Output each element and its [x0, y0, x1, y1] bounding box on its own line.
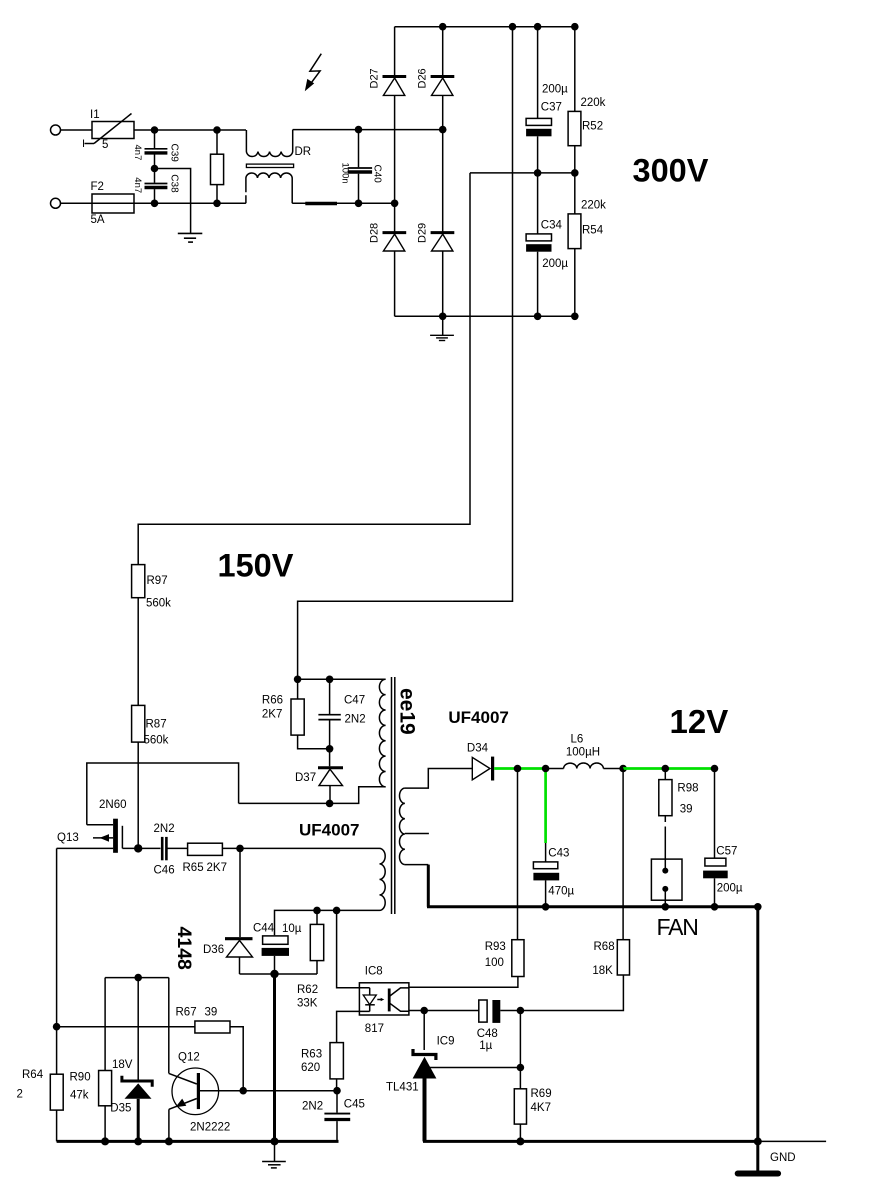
svg-text:C45: C45 [344, 1099, 365, 1111]
svg-text:R52: R52 [582, 121, 603, 133]
terminal N (bottom input) [51, 198, 61, 208]
capacitor C37 [534, 23, 542, 31]
R68 column from 12V node [622, 769, 624, 940]
svg-text:220k: 220k [581, 97, 606, 109]
inductor L6 [564, 763, 604, 768]
svg-text:C47: C47 [344, 695, 365, 707]
optocoupler IC8 [359, 983, 409, 1015]
thick ground return rail [423, 1140, 758, 1143]
green 12V wire [623, 767, 714, 770]
svg-text:R64: R64 [22, 1069, 44, 1081]
resistor R52 [571, 23, 579, 31]
resistor R87 [132, 705, 145, 742]
wire R87 to drain node [137, 742, 139, 848]
capacitor C38 [154, 169, 156, 183]
svg-text:TL431: TL431 [386, 1082, 419, 1094]
resistor R69 [519, 1011, 521, 1089]
wire choke to bridge (top AC) [293, 129, 443, 131]
transformer primary winding [379, 679, 385, 787]
mid rail 150V [470, 172, 575, 174]
resistor R97 [132, 565, 145, 598]
resistor R66 [297, 679, 299, 699]
opto output wire [409, 1010, 479, 1012]
TL431 anode thick wire [423, 1079, 427, 1142]
svg-text:DR: DR [295, 146, 312, 158]
resistor R65 [188, 843, 223, 855]
fuse F2 [92, 202, 246, 204]
IC8 arrow [377, 999, 382, 1001]
IC8 LED [369, 988, 371, 995]
svg-text:R90: R90 [70, 1072, 91, 1084]
TL431 ref wire [430, 1067, 521, 1069]
ground (center bottom) [262, 1161, 286, 1163]
svg-text:33K: 33K [297, 998, 318, 1010]
svg-text:4148: 4148 [173, 927, 195, 971]
svg-text:C39: C39 [169, 144, 180, 163]
svg-text:150V: 150V [218, 548, 294, 584]
svg-text:D28: D28 [369, 223, 381, 243]
resistor R67 [195, 1021, 230, 1033]
svg-text:R69: R69 [531, 1088, 552, 1100]
terminal L (top input) [51, 125, 61, 135]
svg-text:560k: 560k [146, 598, 171, 610]
capacitor C44 [263, 936, 288, 944]
GND symbol [756, 1141, 759, 1170]
resistor R90 [104, 978, 106, 1071]
svg-text:IC9: IC9 [437, 1036, 455, 1048]
capacitor C39 [154, 130, 156, 148]
diode D36 [239, 848, 241, 937]
GND stub wire [758, 1140, 826, 1142]
svg-text:R54: R54 [582, 225, 604, 237]
svg-text:R68: R68 [594, 941, 615, 953]
diode D27 [383, 75, 407, 78]
bleeder resistor (vertical, unlabeled) [216, 130, 218, 154]
svg-text:GND: GND [770, 1152, 796, 1164]
svg-text:560k: 560k [144, 735, 169, 747]
diode D34 [472, 757, 490, 780]
R93 column from 12V raw node [517, 769, 519, 940]
svg-text:D27: D27 [369, 68, 381, 88]
svg-text:100: 100 [485, 957, 504, 969]
svg-text:2N2: 2N2 [154, 823, 175, 835]
lightning bolt symbol [309, 54, 322, 87]
svg-text:D29: D29 [417, 223, 429, 243]
svg-text:C40: C40 [372, 165, 383, 184]
thick wire to ground [273, 974, 276, 1141]
wire R64 node to R67 [57, 1026, 195, 1028]
diode D28 [394, 203, 396, 232]
wire L6 to node [603, 768, 623, 770]
svg-text:Q13: Q13 [57, 832, 79, 844]
secondary top wire [405, 769, 472, 789]
primary top node wire [298, 678, 386, 680]
svg-text:L6: L6 [571, 734, 584, 746]
resistor R62 [316, 910, 318, 924]
svg-text:C34: C34 [541, 220, 563, 232]
svg-text:2K7: 2K7 [262, 709, 282, 721]
capacitor C43 [533, 862, 557, 869]
wire R97 to R87 [137, 598, 139, 706]
150V feed wire [138, 173, 470, 565]
svg-text:5A: 5A [91, 214, 105, 226]
wire choke to bridge (bottom AC) [292, 202, 394, 204]
wire terminal to F2 [61, 202, 92, 204]
capacitor C40 [355, 126, 363, 134]
secondary winding [399, 788, 404, 864]
svg-text:C48: C48 [477, 1028, 498, 1040]
svg-text:200µ: 200µ [542, 84, 568, 96]
right bridge column [439, 23, 447, 31]
svg-text:R63: R63 [301, 1049, 322, 1061]
300V feed wire [509, 23, 517, 31]
capacitor C34 [537, 173, 539, 234]
svg-text:220k: 220k [581, 200, 606, 212]
junction: line node at C39 [151, 126, 159, 134]
svg-text:UF4007: UF4007 [448, 708, 508, 727]
Q13 source column to R64 [56, 848, 58, 1074]
IC8 pin feed from aux [337, 910, 370, 987]
junction: line node at bleeder [213, 126, 221, 134]
left bridge column [394, 27, 396, 77]
svg-text:C43: C43 [548, 848, 569, 860]
junction: neutral node at C38 [151, 200, 159, 208]
svg-text:39: 39 [680, 804, 693, 816]
svg-text:ee19: ee19 [396, 688, 419, 735]
svg-text:IC8: IC8 [365, 966, 383, 978]
svg-text:39: 39 [205, 1007, 218, 1019]
bottom node wire (D36/C44/R62) [240, 973, 318, 975]
capacitor C46 [138, 847, 160, 849]
capacitor C48 [479, 1000, 487, 1022]
IC9 cathode column [423, 1011, 425, 1051]
svg-text:C38: C38 [169, 174, 180, 193]
svg-text:100µH: 100µH [566, 747, 600, 759]
diode D26 [431, 75, 455, 78]
svg-text:18V: 18V [112, 1059, 133, 1071]
zener D35 [137, 978, 139, 1081]
svg-text:620: 620 [301, 1062, 320, 1074]
svg-text:5: 5 [102, 139, 108, 151]
choke core [246, 164, 293, 167]
bottom rail (left) [57, 1140, 339, 1143]
resistor R63 [330, 1043, 343, 1079]
capacitor C47 [329, 679, 331, 714]
green wire D34 to L6 node [494, 767, 545, 770]
svg-text:4n7: 4n7 [132, 177, 143, 193]
svg-text:817: 817 [365, 1023, 384, 1035]
svg-text:2N60: 2N60 [99, 799, 127, 811]
svg-text:R67: R67 [176, 1007, 197, 1019]
svg-text:12V: 12V [670, 703, 729, 740]
wire terminal to I1 [61, 129, 92, 131]
green wire C43 drop [544, 769, 547, 844]
svg-text:1µ: 1µ [479, 1040, 492, 1052]
ground (input filter) [178, 232, 203, 234]
svg-text:Q12: Q12 [178, 1052, 200, 1064]
transistor Q12 [172, 1068, 219, 1115]
svg-text:F2: F2 [91, 181, 104, 193]
primary bottom wire [326, 800, 334, 808]
IC8 phototransistor [388, 989, 391, 1012]
svg-text:300V: 300V [633, 153, 709, 189]
wire cap midpoint to ground [155, 169, 191, 234]
svg-text:R97: R97 [147, 575, 168, 587]
thermistor I1 [92, 122, 134, 139]
svg-text:C37: C37 [541, 102, 562, 114]
Q12 base wire [200, 1090, 337, 1092]
junction: C39/C38 midpoint node [151, 165, 159, 173]
svg-text:D26: D26 [417, 68, 429, 88]
transformer core [391, 677, 393, 914]
svg-text:C46: C46 [154, 865, 175, 877]
diode D37 [329, 749, 331, 767]
svg-text:FAN: FAN [657, 914, 698, 940]
svg-text:D36: D36 [203, 944, 224, 956]
bottom rail of bridge [395, 315, 575, 317]
svg-text:2N2: 2N2 [302, 1101, 323, 1113]
FAN connector [651, 859, 682, 900]
gate feedback wire [87, 763, 239, 825]
mosfet Q13 [113, 819, 118, 853]
svg-text:R98: R98 [677, 783, 698, 795]
svg-text:200µ: 200µ [542, 258, 568, 270]
diode D29 [431, 231, 455, 234]
svg-text:C57: C57 [716, 846, 737, 858]
svg-text:2N2: 2N2 [345, 714, 366, 726]
ground (bridge) [442, 316, 444, 335]
svg-text:I1: I1 [90, 109, 100, 121]
svg-text:10µ: 10µ [282, 923, 302, 935]
svg-text:2K7: 2K7 [207, 862, 227, 874]
svg-text:2N2222: 2N2222 [190, 1122, 230, 1134]
TL431 IC9 [413, 1049, 436, 1060]
wire I1 to choke [134, 129, 246, 131]
branch wire (R90/D35/Q12 top) [105, 977, 169, 979]
svg-text:R93: R93 [485, 941, 506, 953]
svg-text:18K: 18K [592, 965, 613, 977]
secondary bottom wire [405, 864, 428, 866]
svg-text:D34: D34 [467, 743, 489, 755]
svg-text:470µ: 470µ [548, 886, 574, 898]
svg-text:C44: C44 [253, 923, 275, 935]
svg-text:R62: R62 [297, 984, 318, 996]
svg-text:R66: R66 [262, 695, 283, 707]
svg-text:100n: 100n [340, 163, 351, 184]
resistor R64 [50, 1074, 63, 1110]
svg-text:D35: D35 [110, 1103, 131, 1115]
top rail 300V [395, 26, 575, 28]
winding tap stub [405, 833, 429, 835]
svg-text:R65: R65 [183, 862, 204, 874]
junction: R65/D36 gate-drive node [236, 845, 244, 853]
choke DR bottom winding [246, 173, 292, 203]
svg-text:4K7: 4K7 [531, 1102, 551, 1114]
svg-text:200µ: 200µ [717, 883, 743, 895]
resistor R68 [617, 940, 629, 975]
resistor R98 [664, 769, 666, 780]
svg-text:I: I [82, 138, 85, 150]
svg-text:R87: R87 [146, 719, 167, 731]
capacitor C57 [714, 769, 716, 859]
IC8 LED cathode pin to R63 [337, 1011, 370, 1042]
svg-text:47k: 47k [70, 1090, 89, 1102]
resistor R93 [512, 940, 524, 977]
choke DR top winding [246, 130, 292, 157]
svg-text:D37: D37 [295, 772, 316, 784]
svg-text:4n7: 4n7 [132, 145, 143, 161]
output ground rail [427, 905, 758, 908]
svg-text:2: 2 [17, 1089, 23, 1101]
resistor R54 [574, 173, 576, 214]
aux winding [380, 848, 386, 910]
svg-text:UF4007: UF4007 [299, 821, 359, 840]
capacitor C45 [336, 1091, 338, 1113]
aux bottom wire [275, 910, 380, 935]
junction: neutral node at bleeder [213, 200, 221, 208]
